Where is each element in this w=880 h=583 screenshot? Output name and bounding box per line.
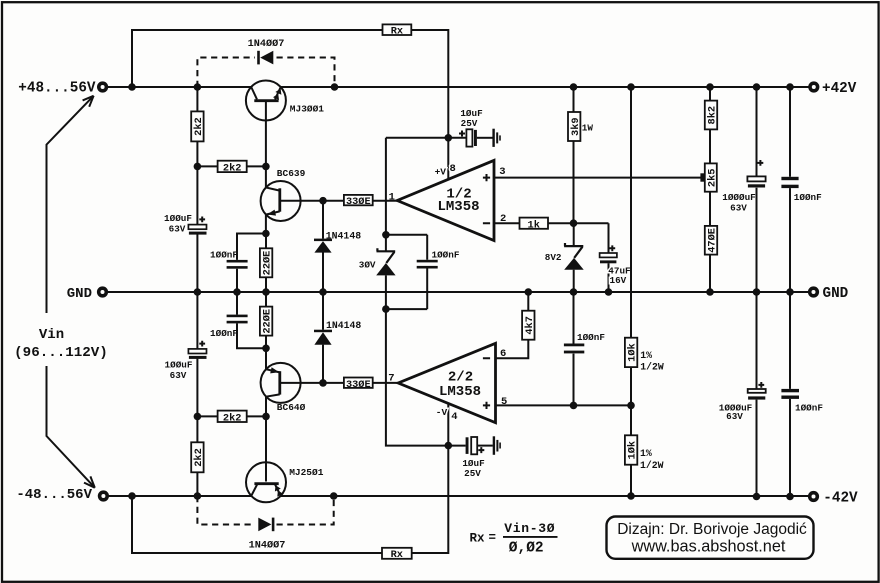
diode 1N4007 top (cathode left) xyxy=(257,51,273,65)
wire dashed loop top 1N4007 xyxy=(197,58,334,88)
svg-text:22ØE: 22ØE xyxy=(262,251,274,276)
trimmer 2k5 with wiper xyxy=(700,163,718,191)
wire +V node to 10uF xyxy=(386,137,467,139)
transistor MJ3001 (NPN darlington, in series with top rail) xyxy=(246,81,286,167)
terminal -42V xyxy=(808,491,819,502)
wire bottom Rx feed: down from -48 rail, across, up to -V node xyxy=(132,446,448,553)
svg-text:MJ3ØØ1: MJ3ØØ1 xyxy=(290,104,325,115)
svg-text:2k2: 2k2 xyxy=(193,117,205,136)
svg-text:3: 3 xyxy=(499,166,505,178)
svg-text:1N4ØØ7: 1N4ØØ7 xyxy=(248,38,285,50)
resistor 330E lower xyxy=(323,378,398,391)
svg-text:33ØE: 33ØE xyxy=(346,379,371,391)
terminal GND left xyxy=(97,286,108,297)
svg-text:33ØE: 33ØE xyxy=(346,196,371,208)
wire zener node to 100nF xyxy=(386,234,427,236)
resistor 470E vertical xyxy=(705,192,719,292)
terminal GND right xyxy=(808,286,819,297)
svg-text:1ØØuF: 1ØØuF xyxy=(165,359,193,370)
svg-text:1Øk: 1Øk xyxy=(627,441,639,460)
junction GND x237 xyxy=(233,288,241,296)
svg-text:3ØV: 3ØV xyxy=(359,260,376,271)
junction -V supply node xyxy=(382,305,390,313)
junction bottom rail 10k xyxy=(627,492,635,500)
zener diode 8V2 xyxy=(564,223,584,292)
svg-text:+48...56V: +48...56V xyxy=(18,81,96,97)
junction 2k2/2k2 left xyxy=(194,163,202,171)
junction top rail x197 xyxy=(194,83,202,91)
transistor MJ2501 (PNP darlington, in series with bottom rail) xyxy=(246,416,286,502)
zener diode 30V xyxy=(376,235,395,309)
svg-text:1N4ØØ7: 1N4ØØ7 xyxy=(249,540,286,552)
junction top rail 8k2 xyxy=(706,83,714,91)
svg-text:BC64Ø: BC64Ø xyxy=(277,402,306,413)
resistor 2k2 upper-left vertical xyxy=(191,87,205,166)
junction GND 47uF xyxy=(605,288,613,296)
svg-text:4k7: 4k7 xyxy=(524,316,536,335)
svg-text:1N4148: 1N4148 xyxy=(326,231,361,242)
junction bottom rail 1000uF xyxy=(753,493,761,501)
resistor 2k2 horizontal upper xyxy=(197,161,266,175)
junction GND x197 xyxy=(194,288,202,296)
junction top rail 1000uF xyxy=(753,83,761,91)
wire op2 pin6 to 4k7 xyxy=(496,340,529,359)
resistor 220E lower vertical xyxy=(260,292,274,348)
junction GND 8V2 xyxy=(570,288,578,296)
svg-text:25V: 25V xyxy=(461,118,478,129)
capacitor 10uF 25V bottom (polarized, + right) xyxy=(448,437,493,454)
resistor 4k7 vertical xyxy=(522,292,536,340)
svg-text:1N4148: 1N4148 xyxy=(326,320,361,331)
op-amp U1B 2/2 LM358 xyxy=(398,343,495,422)
label +V pin 8 xyxy=(435,163,456,178)
wire bottom -42V rail right segment xyxy=(281,495,814,497)
resistor 3k9 1W vertical xyxy=(568,87,582,223)
junction top rail x631 xyxy=(627,83,635,91)
svg-text:1%: 1% xyxy=(640,350,652,361)
svg-text:Dizajn: Dr. Borivoje Jagodić: Dizajn: Dr. Borivoje Jagodić xyxy=(617,521,807,538)
Vin arrow lower xyxy=(47,366,95,488)
svg-text:-42V: -42V xyxy=(823,491,858,507)
svg-text:2k2: 2k2 xyxy=(223,412,242,424)
svg-text:-V: -V xyxy=(436,407,448,418)
wire op1 pin2 to 1k xyxy=(494,222,520,224)
transistor BC640 (PNP, base to the right) xyxy=(261,348,323,416)
wire top +42V rail right segment xyxy=(281,86,814,88)
capacitor 100nF upper-mid xyxy=(227,234,266,293)
junction 2k2/2k2 left lower xyxy=(194,413,202,421)
svg-text:+V: +V xyxy=(435,167,447,178)
svg-text:-48...56V: -48...56V xyxy=(16,487,92,503)
wire GND rail xyxy=(103,291,814,293)
Vin arrow upper xyxy=(47,96,94,313)
svg-text:8V2: 8V2 xyxy=(545,252,562,263)
diode 1N4007 bottom (cathode right) xyxy=(258,518,274,532)
junction 330E upper node xyxy=(319,197,327,205)
svg-text:22ØE: 22ØE xyxy=(262,309,274,334)
resistor Rx top xyxy=(383,24,412,37)
svg-text:3k9: 3k9 xyxy=(570,117,582,136)
resistor Rx bottom xyxy=(382,548,412,561)
junction top rail x334 xyxy=(331,83,339,91)
svg-text:63V: 63V xyxy=(730,203,747,214)
junction pin5 100nF xyxy=(570,402,578,410)
svg-text:LM358: LM358 xyxy=(439,384,481,400)
terminal +42V xyxy=(808,81,819,92)
op-amp U1A 1/2 LM358 xyxy=(397,160,494,240)
junction -V pin4 node xyxy=(445,442,453,450)
junction top rail 3k9 xyxy=(570,83,578,91)
svg-text:1ØØnF: 1ØØnF xyxy=(210,250,238,261)
capacitor 100nF (op-amp supply) xyxy=(386,235,438,309)
wire dashed loop bottom 1N4007 xyxy=(197,496,333,525)
wire top Rx feed: up from +48 rail, across, down to +V node xyxy=(132,30,448,138)
wire +V rail down to zener node (crosses output wire and GND) xyxy=(385,138,387,235)
svg-text:MJ25Ø1: MJ25Ø1 xyxy=(289,467,324,478)
svg-text:Ø,Ø2: Ø,Ø2 xyxy=(509,540,544,556)
svg-text:1Øk: 1Øk xyxy=(627,343,639,362)
wire 631 column from top rail down to pin5 xyxy=(630,87,632,405)
resistor 1k xyxy=(520,218,574,232)
svg-text:=: = xyxy=(489,531,497,545)
label 1% 1/2W upper xyxy=(640,350,664,373)
resistor 2k2 lower-left vertical xyxy=(191,416,205,496)
junction top rail 100nF xyxy=(786,83,794,91)
svg-text:1ØØnF: 1ØØnF xyxy=(794,192,822,203)
transistor BC639 (NPN, base to the right) xyxy=(261,166,323,233)
capacitor 100uF 63V upper-left electrolytic xyxy=(188,166,206,292)
wire 1k node to 47uF xyxy=(574,222,609,224)
svg-text:1k: 1k xyxy=(528,219,540,231)
svg-text:1: 1 xyxy=(389,191,395,203)
ground symbol (bottom 10uF) xyxy=(494,436,500,455)
diode 1N4148 lower (cathode up) xyxy=(314,292,332,383)
junction 1k/8V2/3k9 node xyxy=(570,219,578,227)
junction GND x266 xyxy=(262,288,270,296)
svg-text:47ØE: 47ØE xyxy=(707,228,719,253)
capacitor 100nF mid (below 8V2) xyxy=(564,292,584,405)
svg-text:7: 7 xyxy=(388,372,394,384)
svg-text:1ØØnF: 1ØØnF xyxy=(432,250,460,261)
formula Rx = (Vin-30)/0.02 xyxy=(470,521,558,556)
junction GND 470E xyxy=(706,288,714,296)
svg-text:8: 8 xyxy=(450,163,456,175)
resistor 2k2 horizontal lower xyxy=(197,411,266,425)
junction GND x323 xyxy=(319,288,327,296)
svg-text:Rx: Rx xyxy=(391,549,403,561)
junction GND 100nF xyxy=(786,288,794,296)
label 1% 1/2W lower xyxy=(640,448,664,471)
svg-text:Vin: Vin xyxy=(39,327,64,343)
svg-text:1ØØnF: 1ØØnF xyxy=(210,328,238,339)
junction 30V zener top node xyxy=(382,231,390,239)
svg-text:2k2: 2k2 xyxy=(193,448,205,467)
junction MJ3001 base / BC639 collector xyxy=(262,163,270,171)
svg-text:2k2: 2k2 xyxy=(223,163,242,175)
credit box xyxy=(607,517,814,559)
svg-text:1ØØnF: 1ØØnF xyxy=(795,402,823,413)
capacitor 1000uF 63V lower electrolytic xyxy=(748,292,766,497)
svg-text:1/2W: 1/2W xyxy=(640,460,664,471)
svg-text:16V: 16V xyxy=(610,275,627,286)
svg-text:GND: GND xyxy=(67,286,92,302)
junction bottom rail x334 xyxy=(330,492,338,500)
resistor 10k upper 1% 1/2W xyxy=(625,338,639,367)
diode 1N4148 upper (cathode up) xyxy=(314,201,332,292)
junction BC639 emitter node xyxy=(262,230,270,238)
svg-text:Rx: Rx xyxy=(391,26,403,38)
ground symbol (top 10uF) xyxy=(494,129,500,147)
junction 330E lower node xyxy=(319,379,327,387)
capacitor 100nF right upper xyxy=(781,87,798,292)
svg-text:Vin-3Ø: Vin-3Ø xyxy=(504,521,555,536)
junction GND 4k7 xyxy=(525,288,533,296)
terminal -48...56V xyxy=(98,490,109,501)
resistor 330E upper xyxy=(323,195,397,208)
svg-text:63V: 63V xyxy=(169,224,186,235)
terminal +48...56V xyxy=(97,81,108,92)
capacitor 100nF lower-mid xyxy=(227,292,266,348)
capacitor 1000uF 63V upper electrolytic xyxy=(747,87,765,292)
wire op1 pin8 V+ lead xyxy=(447,138,449,180)
wire op2 pin4 V- lead xyxy=(447,404,449,446)
junction GND 1000uF xyxy=(753,288,761,296)
wire -V rail down to pin4 node xyxy=(386,309,448,446)
svg-text:2k5: 2k5 xyxy=(706,169,718,188)
svg-text:www.bas.abshost.net: www.bas.abshost.net xyxy=(631,538,786,556)
junction BC640 emitter node xyxy=(262,345,270,353)
svg-text:25V: 25V xyxy=(464,468,481,479)
wire op1 pin3 to trimmer wiper xyxy=(494,177,701,179)
wire top +48V rail left segment xyxy=(103,86,251,88)
svg-text:4: 4 xyxy=(451,411,457,423)
capacitor 10uF 25V top (polarized, + left) xyxy=(459,129,493,146)
junction BC640 collector / MJ2501 base xyxy=(262,413,270,421)
wire op2 pin5 line xyxy=(496,404,632,406)
junction pin5 10k xyxy=(627,402,635,410)
svg-text:BC639: BC639 xyxy=(277,168,306,179)
svg-text:1ØØnF: 1ØØnF xyxy=(577,332,605,343)
svg-text:GND: GND xyxy=(823,286,849,302)
svg-text:63V: 63V xyxy=(170,370,187,381)
svg-text:Rx: Rx xyxy=(470,532,486,546)
resistor 220E upper vertical xyxy=(260,234,274,293)
svg-text:8k2: 8k2 xyxy=(707,106,719,125)
label -V pin 4 xyxy=(436,407,458,423)
svg-text:LM358: LM358 xyxy=(437,199,479,215)
svg-text:1W: 1W xyxy=(582,123,594,134)
capacitor 100nF right lower xyxy=(781,292,799,497)
resistor 10k lower 1% 1/2W xyxy=(625,405,639,496)
resistor 8k2 vertical xyxy=(705,87,719,163)
svg-text:1ØØØuF: 1ØØØuF xyxy=(722,192,756,203)
svg-text:(96...112V): (96...112V) xyxy=(14,345,108,361)
wire bottom -48V rail left segment xyxy=(103,495,251,497)
capacitor 100uF 63V lower-left electrolytic xyxy=(188,292,206,416)
junction bottom rail x132 xyxy=(128,492,136,500)
svg-text:63V: 63V xyxy=(726,411,743,422)
junction bottom rail 100nF xyxy=(786,493,794,501)
svg-text:1%: 1% xyxy=(640,448,652,459)
junction +V pin8 node xyxy=(445,134,453,142)
svg-text:1/2W: 1/2W xyxy=(640,362,664,373)
capacitor 47uF 16V electrolytic xyxy=(600,223,617,292)
junction bottom rail x197 xyxy=(194,492,202,500)
svg-text:+42V: +42V xyxy=(822,81,857,97)
junction top rail x132 xyxy=(128,83,136,91)
